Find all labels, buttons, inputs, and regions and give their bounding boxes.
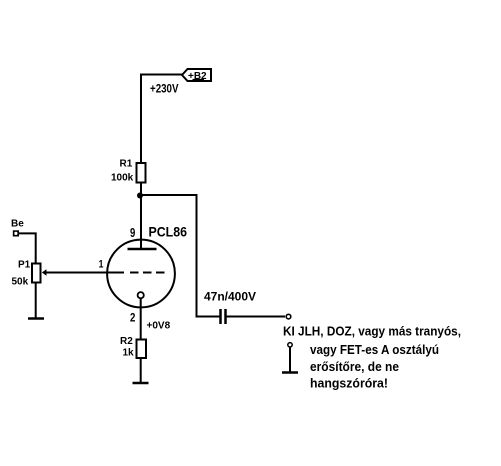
- svg-text:KI JLH, DOZ, vagy más tranyós,: KI JLH, DOZ, vagy más tranyós,: [283, 324, 461, 339]
- wire: R2 to ground: [140, 359, 142, 383]
- wire: terminal to ground: [289, 348, 291, 372]
- svg-text:vagy FET-es A osztályú: vagy FET-es A osztályú: [310, 342, 439, 357]
- resistor R2: [137, 340, 147, 359]
- wire: cathode down to R2: [140, 299, 142, 339]
- wire: R1 bottom to anode: [140, 184, 142, 250]
- grid (dashed): [44, 272, 165, 274]
- svg-text:erősítőre, de ne: erősítőre, de ne: [310, 359, 399, 374]
- svg-text:100k: 100k: [111, 173, 134, 184]
- svg-text:PCL86: PCL86: [149, 224, 188, 240]
- junction node: [137, 193, 143, 199]
- potentiometer P1: [32, 264, 47, 283]
- wire: cap to output terminal: [227, 316, 286, 318]
- svg-text:R2: R2: [120, 336, 133, 347]
- svg-text:Be: Be: [11, 219, 24, 230]
- svg-text:9: 9: [130, 225, 135, 240]
- tube U1 PCL86 envelope: [107, 240, 175, 308]
- output terminal KI: [286, 314, 291, 319]
- resistor R1: [137, 163, 146, 183]
- wire: down to coupling cap: [196, 194, 198, 317]
- wire: flag to vertical supply: [140, 74, 182, 76]
- wire: Be to pot top: [19, 233, 36, 262]
- svg-text:47n/400V: 47n/400V: [204, 290, 256, 304]
- svg-text:+230V: +230V: [150, 82, 179, 96]
- svg-text:R1: R1: [120, 159, 133, 170]
- wire: junction to right: [140, 194, 197, 196]
- svg-text:1: 1: [99, 259, 104, 271]
- ground (output): [282, 371, 298, 374]
- wire: supply down to R1: [140, 74, 142, 163]
- svg-text:2: 2: [130, 311, 136, 325]
- anode plate: [128, 248, 157, 251]
- svg-text:hangszóróra!: hangszóróra!: [310, 376, 388, 391]
- wire: P1 bottom to ground: [35, 284, 37, 319]
- svg-text:+0V8: +0V8: [147, 321, 171, 332]
- svg-text:1k: 1k: [123, 348, 135, 359]
- second output terminal: [288, 343, 292, 347]
- svg-text:+B2: +B2: [188, 71, 207, 82]
- ground (R2): [133, 382, 149, 385]
- svg-text:50k: 50k: [12, 277, 29, 288]
- input terminal Be: [13, 230, 19, 236]
- cathode circle: [138, 292, 144, 298]
- power flag +B2: [182, 69, 211, 82]
- svg-text:P1: P1: [18, 260, 31, 271]
- wire: to cap left plate: [196, 316, 221, 318]
- capacitor C1 47n/400V: [221, 309, 226, 324]
- ground (P1): [28, 317, 44, 320]
- note text: [283, 324, 461, 391]
